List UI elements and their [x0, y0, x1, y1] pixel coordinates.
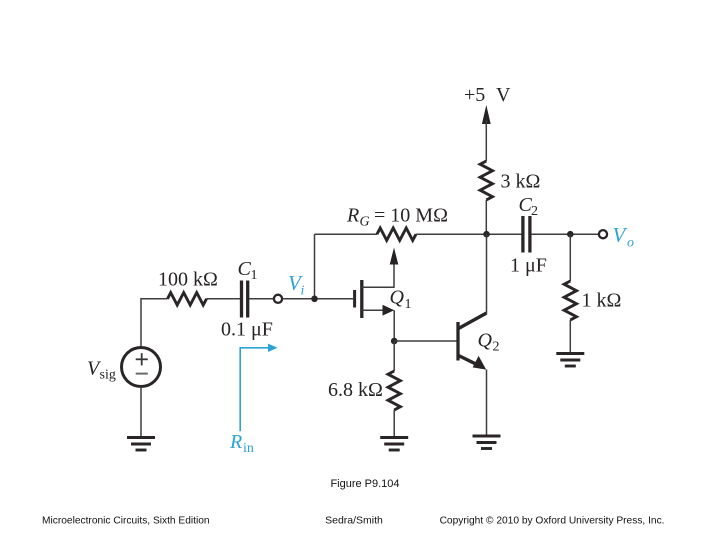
wire C2 to output circle: [532, 233, 599, 235]
Q1 source wire down: [393, 310, 395, 341]
supply arrow: [482, 105, 491, 124]
svg-text:V: V: [496, 84, 511, 106]
svg-text:Q: Q: [478, 330, 493, 352]
Q2 collector wire: [486, 234, 488, 313]
resistor 3 kOhm: [480, 161, 492, 200]
wire 100k to C1: [207, 298, 241, 300]
resistor 1 kOhm: [564, 281, 576, 320]
transistor Q1 channel bar: [360, 280, 363, 318]
svg-text:G: G: [360, 215, 370, 230]
svg-text:= 10 MΩ: = 10 MΩ: [374, 204, 448, 226]
svg-text:C: C: [238, 258, 252, 280]
Q1 drain arrow: [390, 248, 399, 265]
Q1 source arrow: [383, 305, 395, 316]
svg-text:2: 2: [493, 340, 500, 355]
svg-text:o: o: [627, 236, 634, 251]
ground Q2: [473, 436, 501, 449]
left main wire Vsig corner to 100k: [141, 299, 168, 348]
wire source node to Q2 base: [394, 340, 456, 342]
svg-text:100 kΩ: 100 kΩ: [158, 269, 218, 291]
wire RG to node: [416, 233, 522, 235]
svg-text:Q: Q: [390, 287, 405, 309]
svg-text:V: V: [613, 223, 628, 247]
transistor Q1 gate bar: [353, 290, 356, 308]
source Vsig: [122, 348, 161, 387]
Q1 drain lead: [362, 262, 394, 287]
svg-text:+5: +5: [464, 84, 485, 106]
svg-text:1 kΩ: 1 kΩ: [582, 290, 622, 312]
ground right: [556, 354, 584, 367]
Q1 source lead: [362, 309, 384, 311]
ground Vsig: [127, 438, 155, 451]
svg-text:1: 1: [251, 268, 258, 283]
wire vertical Vi to RG: [314, 234, 316, 299]
node drain junction: [483, 231, 490, 238]
Q2 collector diagonal: [459, 313, 487, 329]
input terminal circle: [274, 295, 282, 303]
svg-text:in: in: [243, 441, 254, 456]
Q2 emitter wire to ground: [486, 370, 488, 436]
node output junction: [567, 231, 574, 238]
svg-text:0.1 μF: 0.1 μF: [221, 319, 273, 341]
svg-text:i: i: [301, 284, 305, 299]
wire node to 1k resistor: [569, 234, 571, 281]
svg-text:Sedra/Smith: Sedra/Smith: [325, 515, 383, 527]
Q2 emitter arrow: [473, 356, 487, 370]
svg-text:Microelectronic Circuits, Sixt: Microelectronic Circuits, Sixth Edition: [42, 516, 210, 527]
resistor RG 10 MOhm: [377, 228, 416, 240]
svg-text:Figure P9.104: Figure P9.104: [330, 478, 399, 490]
capacitor C2: [521, 216, 524, 253]
wire 1k to ground: [569, 320, 571, 353]
wire 3k to drain node: [485, 200, 487, 234]
wire C1 to input circle: [249, 298, 274, 300]
wire source node down to 6.8k: [393, 341, 395, 371]
capacitor C1: [240, 281, 243, 318]
resistor 100 kOhm: [168, 293, 207, 305]
svg-text:Copyright © 2010 by Oxford Uni: Copyright © 2010 by Oxford University Pr…: [440, 516, 665, 527]
transistor Q2 base bar: [456, 322, 459, 361]
svg-text:R: R: [346, 204, 359, 226]
output terminal circle: [599, 230, 607, 238]
svg-text:3 kΩ: 3 kΩ: [501, 171, 541, 193]
Q2 emitter diagonal: [459, 356, 478, 365]
node source junction: [391, 338, 398, 345]
ground 6.8k: [380, 438, 408, 451]
svg-text:6.8 kΩ: 6.8 kΩ: [328, 379, 383, 401]
node Vi junction: [311, 296, 318, 303]
wire top horizontal left segment: [315, 233, 378, 235]
svg-text:1 μF: 1 μF: [510, 255, 547, 277]
Rin arrow: [240, 348, 271, 432]
svg-text:sig: sig: [100, 368, 116, 383]
svg-text:2: 2: [531, 204, 538, 219]
resistor 6.8 kOhm: [388, 371, 400, 410]
wire 6.8k to ground: [393, 410, 395, 437]
wire circle to gate: [282, 298, 353, 300]
svg-text:1: 1: [405, 297, 412, 312]
wire Vsig to ground: [140, 387, 142, 438]
svg-text:R: R: [229, 431, 242, 453]
